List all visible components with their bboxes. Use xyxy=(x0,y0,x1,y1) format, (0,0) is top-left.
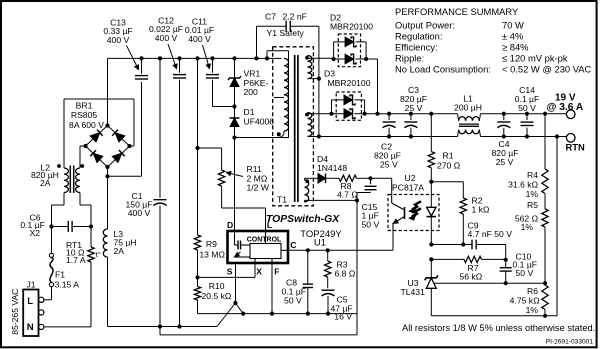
svg-text:R6: R6 xyxy=(527,286,538,296)
svg-text:R5: R5 xyxy=(527,200,538,210)
svg-text:PC817A: PC817A xyxy=(392,182,424,192)
zener VR1 P6KE-200 xyxy=(234,58,236,78)
svg-text:C: C xyxy=(290,240,296,250)
wire R8 to opto collector xyxy=(371,177,392,179)
svg-text:N: N xyxy=(27,322,34,333)
svg-text:8A 600 V: 8A 600 V xyxy=(69,120,104,130)
bottom return line xyxy=(160,334,357,336)
common mode choke L2 820 uH 2A xyxy=(64,168,68,193)
wire C6 node up to L2 right winding xyxy=(90,205,92,227)
primary winding xyxy=(284,58,289,131)
svg-text:1/2 W: 1/2 W xyxy=(247,183,270,193)
capacitor C9 4.7 nF 50 V xyxy=(431,244,472,246)
MOSFET inside U1 xyxy=(234,231,236,245)
diagonal wire to source node xyxy=(217,303,235,327)
wire primary bottom exit xyxy=(278,131,284,138)
capacitor C10 0.1 uF 50 V xyxy=(505,260,507,268)
+19V line after L1 xyxy=(481,113,567,115)
wire L3 to primary ground rail xyxy=(107,257,109,327)
svg-text:R4: R4 xyxy=(527,170,538,180)
wire L2 right top to bridge left node xyxy=(79,146,81,168)
primary ground rail xyxy=(108,326,218,328)
svg-text:20.5 kΩ: 20.5 kΩ xyxy=(202,291,232,301)
svg-text:50 V: 50 V xyxy=(516,268,534,278)
svg-text:200: 200 xyxy=(244,87,259,97)
wire secondary2 top to D3 line xyxy=(307,113,309,114)
wire secondary2 bottom to return rail xyxy=(307,135,309,137)
resistor R8 4.7 ohm xyxy=(339,175,357,181)
svg-text:1%: 1% xyxy=(526,305,539,315)
opto LED xyxy=(430,182,432,208)
pin stubs inside U1 xyxy=(265,231,267,244)
diagonal wire source node to source line xyxy=(235,303,243,314)
wire drain to TOPSwitch D pin xyxy=(234,138,236,232)
resistor R6 4.75 kohm 1% xyxy=(542,285,548,310)
wire feedback ground to RTN xyxy=(556,137,558,316)
svg-text:400 V: 400 V xyxy=(155,33,178,43)
wire L2 left top to bridge right node (over route) xyxy=(63,99,65,168)
svg-text:Output Power:: Output Power: xyxy=(395,20,455,31)
wire clamp node to primary bottom xyxy=(235,137,290,139)
svg-text:13 MΩ: 13 MΩ xyxy=(199,249,225,259)
svg-text:200 µH: 200 µH xyxy=(454,103,482,113)
svg-text:L: L xyxy=(267,220,272,230)
TL431 ref line xyxy=(434,282,545,284)
svg-text:400 V: 400 V xyxy=(128,208,151,218)
svg-text:1 kΩ: 1 kΩ xyxy=(472,205,490,215)
svg-text:≥ 84%: ≥ 84% xyxy=(502,42,529,53)
transformer core xyxy=(294,55,296,202)
svg-text:6.8 Ω: 6.8 Ω xyxy=(335,268,356,278)
light arrows xyxy=(412,201,421,209)
svg-text:R1: R1 xyxy=(443,151,454,161)
capacitor C11 0.01 uF 400 V xyxy=(212,58,214,72)
svg-text:PERFORMANCE SUMMARY: PERFORMANCE SUMMARY xyxy=(395,6,519,17)
svg-text:1%: 1% xyxy=(526,189,539,199)
svg-text:50 V: 50 V xyxy=(362,219,380,229)
wire C pin line xyxy=(288,249,393,251)
wire secondary1 bottom xyxy=(308,78,319,80)
wire R11 branch xyxy=(198,147,222,149)
connector J1 xyxy=(23,290,38,337)
wire rail drop to bottom return line xyxy=(159,327,161,335)
svg-text:2A: 2A xyxy=(40,178,51,188)
svg-text:X: X xyxy=(256,267,262,277)
svg-text:2.2 nF: 2.2 nF xyxy=(283,11,307,21)
svg-text:L: L xyxy=(27,296,33,307)
wire D2 output down to +19V line xyxy=(366,58,377,60)
svg-text:J1: J1 xyxy=(27,279,36,289)
control block xyxy=(250,244,281,259)
wire opto emitter to C pin line xyxy=(392,231,394,251)
diode D1 UF4006 xyxy=(234,107,236,119)
svg-text:1.7 A: 1.7 A xyxy=(66,255,86,265)
wire bias return xyxy=(356,200,358,335)
svg-text:2A: 2A xyxy=(114,246,125,256)
svg-text:D1: D1 xyxy=(244,107,255,117)
svg-text:PI-2691-033001: PI-2691-033001 xyxy=(546,339,594,346)
resistor R5 562 ohm 1% xyxy=(542,209,548,227)
svg-text:4.75 kΩ: 4.75 kΩ xyxy=(510,296,540,306)
svg-text:16 V: 16 V xyxy=(334,311,352,321)
resistor R9 13 Mohm xyxy=(194,235,200,250)
svg-text:t°: t° xyxy=(96,250,101,259)
svg-text:1N4148: 1N4148 xyxy=(317,163,347,173)
svg-text:50 V: 50 V xyxy=(518,103,536,113)
secondary winding 2 xyxy=(308,113,312,137)
svg-text:< 0.52 W @ 230 VAC: < 0.52 W @ 230 VAC xyxy=(502,64,592,75)
+19V output line xyxy=(365,113,458,115)
inductor L3 75 uH 2A xyxy=(103,229,107,257)
svg-text:F1: F1 xyxy=(55,269,65,279)
wire N to RT1 xyxy=(44,326,91,328)
wire C6 node up to L2 left winding xyxy=(51,205,53,227)
capacitor C15 1 uF 50 V xyxy=(370,178,372,184)
wire RT1 to C6 node xyxy=(90,227,92,248)
svg-text:56 kΩ: 56 kΩ xyxy=(460,272,483,282)
svg-text:D: D xyxy=(227,220,233,230)
wire S pin xyxy=(235,263,237,303)
svg-text:85-265 VAC: 85-265 VAC xyxy=(10,289,20,335)
secondary winding 1 xyxy=(308,56,312,79)
capacitor C12 0.022 uF 400 V xyxy=(179,58,181,72)
wire secondary1 bottom down to return xyxy=(318,79,320,137)
svg-text:C7: C7 xyxy=(265,11,276,21)
svg-text:R9: R9 xyxy=(206,239,217,249)
svg-text:S: S xyxy=(227,267,233,277)
resistor R11 2 Mohm 1/2 W xyxy=(218,170,224,186)
wire bridge plus to HV bus xyxy=(107,58,109,125)
wire sense rail xyxy=(197,58,199,235)
svg-text:BR1: BR1 xyxy=(76,101,93,111)
wire LED cathode node xyxy=(429,242,433,246)
svg-text:Efficiency:: Efficiency: xyxy=(395,42,438,53)
wire F pin xyxy=(271,263,273,314)
svg-text:TL431: TL431 xyxy=(401,287,426,297)
wire L to fuse xyxy=(44,299,52,301)
bridge diode top-left xyxy=(90,133,100,142)
output terminal +19V xyxy=(566,110,575,119)
svg-text:70 W: 70 W xyxy=(502,20,524,31)
svg-text:@ 3.6 A: @ 3.6 A xyxy=(547,102,584,113)
resistor R7 56 kohm xyxy=(431,258,464,260)
fuse F1 3.15 A xyxy=(49,283,53,287)
capacitor C6 0.1 uF X2 xyxy=(52,226,69,228)
svg-text:31.6 kΩ: 31.6 kΩ xyxy=(508,179,538,189)
svg-text:25 V: 25 V xyxy=(405,103,423,113)
resistor R10 20.5 kohm xyxy=(194,287,200,301)
resistor R1 270 ohm preload xyxy=(430,114,432,152)
capacitor C2 820 uF 25 V xyxy=(388,114,390,120)
svg-text:RTN: RTN xyxy=(566,141,585,152)
svg-text:Y1 Safety: Y1 Safety xyxy=(267,28,305,38)
source line xyxy=(198,313,358,315)
wire C11 to clamp node xyxy=(213,106,235,108)
svg-text:CONTROL: CONTROL xyxy=(247,237,282,244)
op-amp U1 TOPSwitch TOP249Y box xyxy=(228,231,289,263)
wire bias bottom xyxy=(304,200,306,202)
svg-text:4.7 nF 50 V: 4.7 nF 50 V xyxy=(468,229,513,239)
wire minus node to L3 xyxy=(107,176,109,229)
capacitor C1 150 uF 400 V xyxy=(159,58,161,197)
svg-text:U1: U1 xyxy=(314,237,326,248)
bridge diode top-right xyxy=(115,133,125,142)
transformer T1 safety box xyxy=(273,47,314,206)
wire minus node to C13 xyxy=(108,175,142,177)
svg-text:R10: R10 xyxy=(209,281,225,291)
wire bias top to D4 xyxy=(304,178,306,180)
svg-text:MBR20100: MBR20100 xyxy=(330,21,373,31)
capacitor C5 47 uF 16 V xyxy=(327,277,329,288)
svg-text:≤ 120 mV pk-pk: ≤ 120 mV pk-pk xyxy=(502,53,568,64)
opto phototransistor xyxy=(391,195,393,204)
wire R11 to L pin xyxy=(221,186,223,208)
wire bridge minus down xyxy=(107,167,109,176)
output return rail xyxy=(319,136,458,138)
svg-text:270 Ω: 270 Ω xyxy=(437,161,461,171)
capacitor C3 820 uF 25 V xyxy=(410,114,412,120)
wire secondary1 top to D2 xyxy=(307,56,309,59)
svg-text:25 V: 25 V xyxy=(380,160,398,170)
bias winding xyxy=(305,180,309,202)
svg-text:X2: X2 xyxy=(30,228,41,238)
svg-text:TOPSwitch-GX: TOPSwitch-GX xyxy=(266,214,340,225)
capacitor C7 2.2 nF Y1 Safety xyxy=(256,26,258,58)
capacitor C14 0.1 uF 50 V xyxy=(526,114,528,120)
svg-text:50 V: 50 V xyxy=(284,296,302,306)
bridge diode bottom-right xyxy=(112,153,122,162)
svg-text:400 V: 400 V xyxy=(188,34,211,44)
resistor R2 1 kohm xyxy=(431,181,463,183)
resistor R3 6.8 ohm xyxy=(327,250,329,261)
svg-text:Ripple:: Ripple: xyxy=(395,53,424,64)
return rail after L1 xyxy=(481,136,567,138)
wire X pin to divider xyxy=(198,276,256,278)
capacitor C4 820 uF 25 V xyxy=(503,114,505,120)
svg-text:D3: D3 xyxy=(324,68,335,78)
svg-text:No Load Consumption:: No Load Consumption: xyxy=(395,64,491,75)
svg-text:4.7 Ω: 4.7 Ω xyxy=(337,189,358,199)
thermistor RT1 10 ohm 1.7 A xyxy=(88,247,94,262)
svg-text:25 V: 25 V xyxy=(496,157,514,167)
svg-text:Regulation:: Regulation: xyxy=(395,31,442,42)
capacitor C8 0.1 uF 50 V xyxy=(307,250,309,284)
svg-text:F: F xyxy=(274,267,279,277)
svg-text:T1: T1 xyxy=(277,195,287,205)
svg-text:RS805: RS805 xyxy=(71,110,97,120)
wire TL431 anode xyxy=(430,288,432,316)
svg-text:All resistors 1/8 W 5% unless: All resistors 1/8 W 5% unless otherwise … xyxy=(402,323,595,333)
svg-text:± 4%: ± 4% xyxy=(502,31,523,42)
resistor R4 31.6 kohm 1% xyxy=(542,169,548,194)
svg-text:3.15 A: 3.15 A xyxy=(55,280,80,290)
svg-text:MBR20100: MBR20100 xyxy=(328,78,371,88)
HV bus xyxy=(108,57,282,59)
output terminal RTN xyxy=(566,134,575,143)
svg-text:400 V: 400 V xyxy=(107,35,130,45)
wire fuse to C6 node xyxy=(51,227,53,254)
capacitor C13 0.33 uF 400 V xyxy=(141,58,143,73)
wire bus over-route to primary bottom xyxy=(266,51,268,59)
svg-text:UF4006: UF4006 xyxy=(244,116,275,126)
divider: wire +19V to R4 xyxy=(544,114,546,169)
bridge diode bottom-left xyxy=(93,153,103,162)
svg-text:1%: 1% xyxy=(521,222,534,232)
